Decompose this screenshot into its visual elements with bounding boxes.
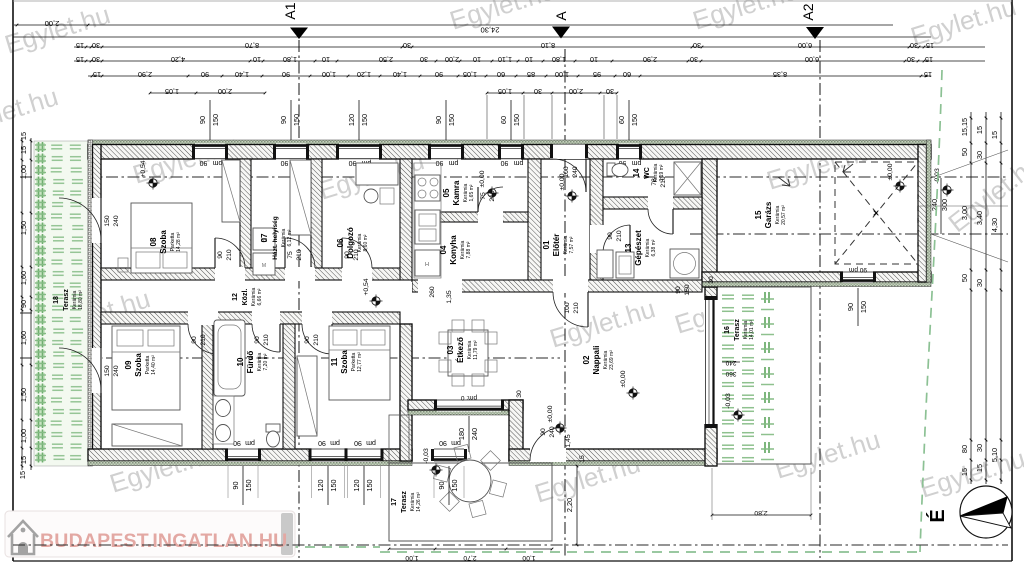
- svg-text:80: 80: [960, 445, 969, 453]
- kitchen fridge: [415, 250, 440, 276]
- svg-text:±0,00: ±0,00: [559, 173, 566, 190]
- svg-text:3,40: 3,40: [975, 211, 984, 225]
- svg-text:240: 240: [930, 199, 939, 211]
- garage driveway dashed X: [835, 162, 918, 264]
- svg-text:150: 150: [104, 215, 111, 227]
- top wall window 90 at x446: [431, 144, 461, 160]
- room 18 label: [53, 289, 84, 311]
- svg-text:1,00: 1,00: [19, 429, 28, 443]
- bathtub room 10: [214, 320, 245, 396]
- svg-text:30: 30: [910, 41, 918, 50]
- svg-text:1,05: 1,05: [165, 87, 179, 96]
- svg-text:30: 30: [975, 279, 984, 287]
- svg-text:1,10: 1,10: [498, 55, 512, 64]
- bottom wall window 120 at x328: [312, 448, 345, 462]
- svg-text:10: 10: [253, 55, 261, 64]
- svg-text:260: 260: [429, 286, 436, 298]
- svg-text:06: 06: [336, 238, 345, 247]
- svg-text:6,38 m²: 6,38 m²: [651, 239, 657, 256]
- room 14 label: [632, 163, 665, 182]
- living to terrace17 door: [530, 448, 566, 462]
- wall between rooms 07 and 06: [311, 159, 322, 268]
- svg-text:90: 90: [435, 70, 443, 79]
- pantry door: [478, 211, 503, 223]
- garage west wall: [702, 159, 717, 287]
- svg-text:120: 120: [352, 479, 361, 491]
- dining bay south wall: [408, 400, 523, 410]
- svg-text:±0,00: ±0,00: [479, 170, 486, 187]
- svg-text:12: 12: [232, 293, 239, 301]
- bottom window dim pair 120/150: [327, 466, 329, 505]
- section line A: [564, 49, 566, 558]
- terrace 17 round table: [449, 460, 491, 502]
- svg-text:15,15: 15,15: [960, 118, 969, 136]
- boiler mech 13: [597, 250, 613, 278]
- svg-text:8,35: 8,35: [773, 70, 787, 79]
- svg-text:1,50: 1,50: [19, 221, 28, 235]
- svg-text:04: 04: [439, 245, 448, 254]
- wall entry / mechanical: [590, 159, 603, 281]
- svg-text:15: 15: [76, 55, 84, 64]
- svg-text:15: 15: [19, 146, 28, 154]
- svg-text:2,70: 2,70: [463, 554, 476, 561]
- svg-text:150: 150: [244, 479, 253, 491]
- room 12 label: [232, 287, 263, 306]
- door room11: [302, 311, 332, 325]
- svg-text:15: 15: [19, 132, 28, 140]
- svg-text:90: 90: [191, 336, 198, 344]
- svg-text:pm: 0: pm: 0: [460, 394, 477, 401]
- svg-text:02: 02: [582, 355, 591, 364]
- horizontal axis y233 garage: [690, 233, 1008, 235]
- svg-text:1,50: 1,50: [19, 388, 28, 402]
- top exterior wall: [88, 145, 931, 160]
- svg-text:pm: pm: [448, 159, 458, 166]
- svg-text:7,57 m²: 7,57 m²: [569, 236, 575, 253]
- svg-text:M: M: [262, 263, 266, 269]
- svg-text:6,00: 6,00: [798, 41, 812, 50]
- svg-text:17: 17: [391, 498, 398, 506]
- svg-text:90: 90: [501, 159, 509, 166]
- wardrobe room 08: [222, 160, 240, 222]
- svg-text:30: 30: [92, 41, 100, 50]
- svg-text:14,26 m²: 14,26 m²: [416, 492, 422, 512]
- terrace17 bottom dims: [389, 548, 552, 550]
- svg-text:2,90: 2,90: [643, 55, 657, 64]
- kitchen pass opening: [418, 279, 462, 293]
- dimension row L4: [74, 60, 985, 62]
- svg-text:10: 10: [322, 55, 330, 64]
- svg-text:+0,54: +0,54: [363, 278, 370, 295]
- section marker A: [552, 27, 570, 39]
- svg-text:2,00: 2,00: [569, 87, 583, 96]
- svg-text:8,60 m²: 8,60 m²: [363, 234, 369, 251]
- svg-text:150: 150: [104, 365, 111, 377]
- entrance dim extension lines: [486, 95, 488, 139]
- svg-text:Előtér: Előtér: [552, 234, 561, 257]
- terrace 16 green hatch: [722, 292, 774, 461]
- svg-text:1,00: 1,00: [19, 165, 28, 179]
- room 17 label: [391, 491, 422, 513]
- entry to living door: [553, 279, 588, 293]
- svg-text:Terasz: Terasz: [734, 319, 741, 341]
- svg-text:210: 210: [573, 302, 580, 314]
- room 06 label: [336, 227, 369, 259]
- washer dryer room 07: [253, 228, 275, 250]
- svg-text:90: 90: [231, 481, 240, 489]
- svg-text:2,50: 2,50: [379, 55, 393, 64]
- svg-text:1,05: 1,05: [498, 87, 512, 96]
- dining bay east wall: [509, 400, 523, 461]
- svg-text:15: 15: [18, 471, 27, 479]
- svg-text:13: 13: [624, 243, 633, 252]
- svg-text:150: 150: [447, 114, 456, 126]
- svg-text:Házt. helyiség: Házt. helyiség: [272, 216, 279, 259]
- svg-text:2,80: 2,80: [754, 509, 767, 516]
- svg-text:150: 150: [329, 479, 338, 491]
- svg-text:pm: pm: [513, 159, 523, 166]
- svg-text:240: 240: [572, 166, 579, 178]
- svg-text:30: 30: [92, 55, 100, 64]
- svg-text:4,20: 4,20: [171, 55, 185, 64]
- bed room 11: [329, 326, 390, 400]
- svg-text:+0,54: +0,54: [140, 160, 147, 177]
- terrace door room08: [92, 198, 102, 243]
- top wall window 60 at x511: [501, 144, 521, 160]
- svg-text:210: 210: [200, 334, 207, 346]
- svg-text:210: 210: [660, 176, 667, 188]
- compass rose: [960, 486, 1012, 538]
- wardrobe room 11: [297, 356, 317, 436]
- svg-text:30: 30: [975, 444, 984, 452]
- toilet wc 14: [607, 163, 615, 176]
- svg-text:210: 210: [616, 230, 623, 242]
- svg-text:150: 150: [292, 114, 301, 126]
- svg-text:6,66 m²: 6,66 m²: [257, 288, 263, 305]
- kitchen stove: [415, 175, 440, 201]
- room 05 label: [442, 180, 475, 205]
- terrace door room09: [92, 348, 102, 393]
- svg-text:H: H: [425, 262, 429, 268]
- top wall window 90 at x210: [195, 144, 225, 160]
- living room south wall: [509, 449, 717, 461]
- svg-text:90: 90: [349, 159, 357, 166]
- property boundary green dashed: [920, 70, 942, 552]
- svg-text:A2: A2: [800, 3, 816, 20]
- middle south wall: [412, 280, 702, 292]
- svg-text:90: 90: [436, 159, 444, 166]
- svg-text:150: 150: [512, 114, 521, 126]
- svg-text:30: 30: [516, 390, 523, 398]
- bottom exterior wall left section: [88, 449, 412, 461]
- svg-text:30: 30: [534, 87, 542, 96]
- svg-text:pm: pm: [330, 439, 340, 446]
- svg-text:15: 15: [960, 468, 969, 476]
- svg-text:1,00: 1,00: [522, 554, 535, 561]
- svg-text:2,90: 2,90: [138, 70, 152, 79]
- svg-text:15: 15: [76, 41, 84, 50]
- svg-text:Szoba: Szoba: [134, 353, 143, 377]
- svg-text:1,80: 1,80: [283, 55, 297, 64]
- svg-text:90: 90: [282, 70, 290, 79]
- entrance door top wall: [550, 145, 588, 160]
- svg-text:-0,03: -0,03: [725, 393, 732, 409]
- window dim pair 120/150: [358, 100, 360, 140]
- washer mech 13: [670, 249, 699, 278]
- svg-text:15: 15: [926, 41, 934, 50]
- garage south window: [843, 271, 873, 283]
- window dim pair 60/150: [510, 100, 512, 140]
- bed room 08: [131, 203, 192, 273]
- svg-text:90: 90: [201, 70, 209, 79]
- svg-text:150: 150: [360, 114, 369, 126]
- room 11 east wall: [400, 324, 412, 461]
- dimension row L1: [14, 24, 893, 26]
- svg-text:09: 09: [124, 360, 133, 369]
- wall rooms 09/10: [202, 324, 213, 449]
- svg-text:150: 150: [859, 301, 868, 313]
- dining table: [448, 330, 488, 376]
- svg-text:2,20: 2,20: [565, 498, 574, 512]
- svg-text:240: 240: [113, 215, 120, 227]
- svg-text:15: 15: [924, 70, 932, 79]
- room 09 label: [124, 353, 157, 377]
- left exterior wall insulation: [88, 140, 93, 466]
- dimension row L3: [74, 46, 985, 48]
- svg-text:12,77 m²: 12,77 m²: [357, 352, 363, 372]
- svg-text:85: 85: [527, 70, 535, 79]
- svg-text:Konyha: Konyha: [449, 235, 458, 265]
- garage east wall: [918, 145, 927, 283]
- svg-text:1,65 m²: 1,65 m²: [469, 184, 475, 201]
- bottom wall window 120 at x364: [348, 448, 381, 462]
- garage window dim pair: [857, 288, 859, 326]
- svg-text:60: 60: [623, 70, 631, 79]
- wall between room 06 and kitchen: [400, 159, 412, 280]
- svg-text:180: 180: [457, 428, 466, 440]
- svg-text:2,00: 2,00: [218, 87, 232, 96]
- kitchen sink: [415, 210, 440, 244]
- svg-text:15: 15: [990, 131, 999, 139]
- shower wc 14: [674, 162, 701, 195]
- svg-text:15: 15: [975, 126, 984, 134]
- svg-text:50: 50: [960, 148, 969, 156]
- window dim pair 90/150: [290, 100, 292, 140]
- svg-text:-0,03: -0,03: [423, 448, 430, 464]
- svg-text:90: 90: [281, 159, 289, 166]
- horizontal axis y358 bedrooms: [20, 357, 560, 359]
- door room08->corridor: [215, 267, 245, 281]
- svg-text:210: 210: [313, 334, 320, 346]
- svg-text:10: 10: [473, 55, 481, 64]
- svg-text:24,30: 24,30: [480, 26, 499, 35]
- toilet room 10: [266, 424, 280, 432]
- room 07 label: [260, 216, 293, 259]
- kitchen counter: [414, 163, 441, 278]
- svg-text:15: 15: [579, 455, 586, 463]
- svg-text:1,40: 1,40: [393, 70, 407, 79]
- svg-text:90: 90: [217, 251, 224, 259]
- east wall living/terrace: [705, 287, 717, 466]
- svg-text:Gépészet: Gépészet: [634, 230, 643, 266]
- svg-text:1,05: 1,05: [463, 70, 477, 79]
- svg-text:1,00: 1,00: [555, 70, 569, 79]
- svg-text:pm: pm: [245, 439, 255, 446]
- svg-text:11: 11: [330, 357, 339, 366]
- svg-text:BUDAPEST.INGATLAN.HU: BUDAPEST.INGATLAN.HU: [40, 530, 287, 552]
- svg-text:14,40 m²: 14,40 m²: [151, 355, 157, 375]
- svg-text:30: 30: [420, 55, 428, 64]
- horizontal axis y177: [20, 176, 1008, 178]
- room 13 label: [624, 230, 657, 266]
- svg-text:90: 90: [19, 300, 28, 308]
- bay window 180: [437, 399, 501, 412]
- corridor north wall (wall A): [101, 268, 400, 280]
- svg-text:30: 30: [693, 41, 701, 50]
- wall kitchen / entry: [528, 159, 541, 281]
- door bath10: [252, 311, 280, 325]
- svg-text:WC: WC: [644, 167, 651, 179]
- svg-text:210: 210: [263, 334, 270, 346]
- svg-text:Fürdő: Fürdő: [246, 351, 255, 374]
- svg-text:1,35: 1,35: [446, 290, 453, 303]
- corridor to dining opening: [400, 282, 412, 311]
- svg-text:60: 60: [499, 116, 508, 124]
- svg-text:240: 240: [113, 365, 120, 377]
- section marker A2: [806, 27, 824, 39]
- svg-text:90: 90: [279, 116, 288, 124]
- svg-text:90: 90: [439, 439, 447, 446]
- svg-text:Közl.: Közl.: [242, 289, 249, 306]
- svg-text:07: 07: [260, 233, 269, 242]
- room 15 label: [754, 201, 787, 228]
- terrace 18 green hatch area: [34, 141, 88, 466]
- border frame: [12, 0, 14, 561]
- svg-text:78: 78: [651, 178, 658, 186]
- room 11 label: [330, 350, 363, 374]
- svg-text:pm: pm: [631, 159, 641, 166]
- svg-text:10: 10: [525, 55, 533, 64]
- svg-text:100: 100: [564, 302, 571, 314]
- section line A2: [819, 40, 821, 558]
- svg-text:15: 15: [925, 55, 933, 64]
- svg-text:30: 30: [708, 276, 715, 284]
- svg-text:90: 90: [437, 481, 446, 489]
- svg-text:Szoba: Szoba: [159, 230, 168, 254]
- svg-text:90: 90: [200, 159, 208, 166]
- svg-text:Szoba: Szoba: [340, 350, 349, 374]
- svg-text:6,00: 6,00: [805, 55, 819, 64]
- svg-text:90: 90: [254, 336, 261, 344]
- top wall window 90 at x291: [276, 144, 306, 160]
- section line A1: [298, 40, 300, 558]
- svg-text:4,30: 4,30: [990, 218, 999, 232]
- wardrobe room 09: [112, 424, 182, 446]
- svg-text:30: 30: [907, 55, 915, 64]
- svg-text:1,60: 1,60: [19, 271, 28, 285]
- terrace 17 outline: [389, 415, 409, 463]
- svg-text:10: 10: [236, 357, 245, 366]
- svg-text:18,80 m²: 18,80 m²: [78, 290, 84, 310]
- svg-text:15: 15: [975, 464, 984, 472]
- svg-text:90: 90: [540, 428, 547, 436]
- svg-text:pm: pm: [366, 439, 376, 446]
- door room09: [188, 311, 218, 325]
- svg-text:90: 90: [675, 286, 682, 294]
- left dim column: [21, 138, 23, 470]
- svg-text:1,20: 1,20: [357, 70, 371, 79]
- level marks: [147, 177, 160, 190]
- svg-text:Terasz: Terasz: [401, 491, 408, 513]
- dim 2,80 terrace16: [712, 514, 811, 516]
- svg-text:1,45: 1,45: [565, 434, 572, 447]
- window dim pair 60/150: [628, 100, 630, 140]
- logo box: [5, 511, 295, 557]
- horizontal axis y313 left: [20, 312, 107, 314]
- pantry south wall: [428, 212, 528, 222]
- svg-text:16: 16: [724, 326, 731, 334]
- svg-text:8,70: 8,70: [245, 41, 259, 50]
- svg-text:7,88 m²: 7,88 m²: [466, 241, 472, 258]
- svg-text:15: 15: [19, 456, 28, 464]
- room 01 label: [542, 234, 575, 257]
- svg-text:30: 30: [690, 55, 698, 64]
- svg-text:14,28 m²: 14,28 m²: [176, 232, 182, 252]
- svg-text:±0,00: ±0,00: [620, 370, 627, 387]
- svg-text:210: 210: [226, 249, 233, 261]
- washbasins room 10: [213, 396, 234, 444]
- mech room door: [590, 225, 604, 253]
- top wall window 60 at x629: [619, 144, 639, 160]
- wall between rooms 08 and 07: [240, 159, 251, 268]
- svg-text:1,60: 1,60: [19, 331, 28, 345]
- top exterior wall insulation: [88, 140, 931, 145]
- section marker A1: [290, 28, 308, 40]
- horizontal axis bottom y545: [13, 544, 1008, 546]
- left exterior wall: [93, 145, 102, 462]
- svg-text:5,10: 5,10: [990, 448, 999, 462]
- svg-text:75: 75: [287, 251, 294, 259]
- dimension row L2: [13, 36, 931, 38]
- svg-text:60: 60: [497, 70, 505, 79]
- svg-text:Étkező: Étkező: [456, 337, 465, 363]
- terrace 16 outline: [714, 287, 811, 464]
- svg-text:01: 01: [542, 240, 551, 249]
- svg-text:×: ×: [872, 206, 879, 220]
- door room06->corridor: [342, 267, 372, 281]
- svg-text:90: 90: [198, 116, 207, 124]
- svg-text:50: 50: [960, 274, 969, 282]
- svg-text:15: 15: [93, 70, 101, 79]
- svg-text:3,00: 3,00: [960, 206, 969, 220]
- window dim pair 90/150: [445, 100, 447, 140]
- bottom wall window 90 at x243: [228, 448, 258, 462]
- dim 2,20: [576, 466, 578, 545]
- svg-text:1,40: 1,40: [235, 70, 249, 79]
- svg-text:60: 60: [617, 116, 626, 124]
- svg-text:240: 240: [725, 359, 736, 366]
- svg-text:03: 03: [446, 345, 455, 354]
- wc door: [648, 196, 673, 210]
- svg-text:30: 30: [403, 41, 411, 50]
- bed room 09: [112, 326, 180, 410]
- room 02 label: [582, 346, 615, 375]
- wall rooms 10/11: [283, 324, 295, 449]
- svg-text:2,00: 2,00: [45, 19, 60, 28]
- svg-text:150: 150: [450, 479, 459, 491]
- axis over logo: [13, 544, 330, 546]
- svg-text:15: 15: [754, 210, 763, 219]
